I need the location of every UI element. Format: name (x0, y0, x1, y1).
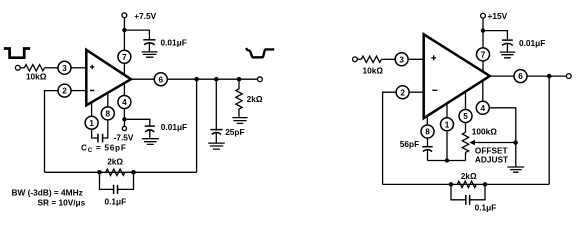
svg-text:0.01μF: 0.01μF (161, 122, 187, 132)
svg-text:56pF: 56pF (400, 139, 419, 149)
potentiometer 100k (462, 132, 468, 152)
junction supply right (481, 28, 485, 32)
wire supply down (482, 18, 484, 48)
wire pin4 right and down to ground (489, 108, 516, 167)
pin 7 right (477, 48, 490, 61)
junction wiper (513, 140, 518, 145)
wire pin2 to op-amp (71, 90, 87, 92)
wire junction to bypass cap (124, 30, 149, 39)
junction output right (547, 74, 552, 79)
svg-text:3: 3 (62, 64, 67, 73)
junction pin4 (122, 117, 126, 121)
svg-text:2kΩ: 2kΩ (247, 94, 263, 104)
pin 2 (58, 84, 71, 97)
wire pin2 left and down (383, 92, 397, 184)
wire resistor to pin3 (45, 67, 59, 69)
wire pin4 down (123, 108, 125, 126)
ground (500, 52, 515, 58)
-7.5V terminal (122, 126, 126, 130)
wire pin5 to pot (465, 122, 467, 132)
svg-text:1: 1 (89, 119, 94, 128)
svg-text:8: 8 (425, 128, 430, 137)
wire pin1 down to Cc (92, 129, 98, 138)
output terminal (258, 77, 263, 82)
feedback resistor 2k right (457, 181, 476, 187)
load resistor 2k (236, 81, 242, 117)
svg-text:8: 8 (106, 110, 111, 119)
svg-text:2kΩ: 2kΩ (461, 171, 477, 181)
wire pin7 to op-amp edge (123, 63, 125, 76)
capacitor 56pF right (422, 146, 432, 148)
wire resistor to pin3 (381, 58, 395, 60)
svg-text:6: 6 (159, 75, 164, 84)
capacitor 0.1uF plates (114, 185, 118, 194)
junction pin1 rail (445, 158, 449, 162)
svg-text:BW (-3dB) = 4MHz: BW (-3dB) = 4MHz (12, 187, 83, 197)
svg-text:0.1μF: 0.1μF (105, 196, 127, 206)
svg-text:10kΩ: 10kΩ (363, 65, 384, 75)
feedback row wire (45, 171, 197, 173)
ground (142, 52, 158, 57)
feedback cap 0.1uF branch (100, 172, 134, 189)
feedback right column (output) (548, 76, 550, 184)
capacitor 0.01uF top (143, 39, 155, 41)
pin 4 (118, 96, 131, 109)
svg-text:6: 6 (518, 72, 523, 81)
svg-text:7: 7 (481, 51, 486, 60)
pin 4 right (476, 101, 489, 114)
svg-text:0.01μF: 0.01μF (519, 38, 545, 48)
wire junction to bypass cap (483, 31, 507, 40)
output terminal right (566, 74, 571, 79)
svg-text:2: 2 (62, 87, 67, 96)
input square-pulse waveform (4, 49, 30, 58)
pin 1 (85, 116, 98, 129)
wire pin3 to op-amp (71, 67, 87, 69)
feedback cap 0.1uF right branch (451, 184, 485, 199)
junction 25pF tap (214, 77, 219, 82)
svg-text:4: 4 (122, 98, 127, 107)
wire pin2 left and down to feedback (45, 91, 59, 173)
pin 8 lead from op-amp (107, 93, 109, 108)
minus sign (90, 90, 94, 92)
pin 1 lead from op-amp (91, 102, 93, 117)
wire Cc to pin8 (103, 120, 108, 138)
ground (208, 143, 225, 149)
plus sign right (431, 55, 436, 60)
output wire pin6 row (131, 78, 258, 80)
feedback row right (383, 183, 550, 185)
svg-text:-7.5V: -7.5V (114, 132, 134, 142)
svg-text:2: 2 (400, 88, 405, 97)
pin 1 right (441, 118, 454, 131)
svg-text:SR = 10V/μs: SR = 10V/μs (38, 197, 86, 207)
wire pin2 to op-amp (409, 91, 424, 93)
ground pot (507, 167, 524, 172)
input terminal right (353, 57, 358, 62)
capacitor 0.1uF right plates (466, 195, 470, 205)
capacitor Cc 56pF (98, 134, 103, 143)
pin 4 lead from op-amp (123, 83, 125, 96)
feedback right column (196, 79, 198, 172)
capacitor 25pF (215, 81, 217, 130)
minus sign right (432, 89, 437, 91)
+15V terminal (481, 13, 486, 18)
resistor 10k right (361, 56, 381, 62)
ground (232, 118, 247, 124)
bottom rail pins 8-1-pot (428, 160, 466, 162)
capacitor 0.01uF bottom (145, 125, 155, 127)
pin 4 lead (482, 80, 484, 101)
wire pin3 to op-amp (408, 58, 424, 60)
pin 3 (58, 61, 71, 74)
op-amp U1 triangle (86, 50, 131, 106)
pin 6 (154, 73, 167, 86)
pin 6 right (514, 70, 527, 83)
feedback resistor 2k (106, 169, 125, 175)
junction 2k tap (237, 77, 242, 82)
svg-text:7: 7 (122, 53, 127, 62)
wire terminal to resistor (357, 58, 361, 60)
wiper arrow (475, 142, 516, 144)
wire supply down to pin7 (123, 18, 125, 51)
svg-text:100kΩ: 100kΩ (472, 126, 497, 136)
pin 5 lead (465, 91, 467, 109)
svg-text:2kΩ: 2kΩ (107, 157, 123, 167)
feedback junction right (131, 170, 136, 175)
svg-text:+7.5V: +7.5V (134, 11, 156, 21)
input terminal (15, 65, 20, 70)
pin 2 right (396, 86, 409, 99)
svg-text:+15V: +15V (488, 11, 508, 21)
wire pin8 to 56pF (427, 138, 429, 146)
pin 8 (101, 107, 114, 120)
svg-text:0.1μF: 0.1μF (475, 202, 497, 212)
+7.5V terminal (122, 13, 127, 18)
op-amp U2 triangle (424, 34, 490, 118)
feedback junction left (97, 170, 102, 175)
resistor R 10k input (24, 65, 44, 71)
feedback junction right right-ckt (483, 182, 488, 187)
junction feedback tap (194, 77, 199, 82)
wire input terminal to resistor (20, 67, 24, 69)
wire junction to bypass cap bottom (124, 119, 149, 125)
wire pin7 to op-amp edge (482, 61, 484, 73)
pin 8 right (421, 125, 434, 138)
output row right (490, 75, 567, 77)
svg-text:3: 3 (399, 55, 404, 64)
svg-text:CC = 56pF: CC = 56pF (81, 142, 127, 154)
wire pot to rail (465, 153, 467, 161)
svg-text:5: 5 (463, 112, 468, 121)
svg-text:ADJUST: ADJUST (475, 154, 508, 164)
output slewed waveform (246, 48, 274, 58)
ground (142, 139, 159, 145)
svg-text:0.01μF: 0.01μF (161, 38, 187, 48)
feedback junction left right-ckt (449, 182, 454, 187)
wire pin1 to rail (446, 131, 448, 161)
capacitor 0.01uF right (502, 39, 513, 41)
svg-text:1: 1 (445, 120, 450, 129)
pin 7 (118, 50, 131, 63)
junction supply (122, 28, 126, 32)
pin 8 lead (426, 115, 428, 125)
svg-text:4: 4 (481, 104, 486, 113)
svg-text:25pF: 25pF (225, 127, 244, 137)
svg-text:10kΩ: 10kΩ (26, 72, 47, 82)
plus sign (90, 65, 94, 69)
pin 1 lead (446, 103, 448, 118)
pin 3 right (395, 53, 408, 66)
pin 5 right (459, 110, 472, 123)
